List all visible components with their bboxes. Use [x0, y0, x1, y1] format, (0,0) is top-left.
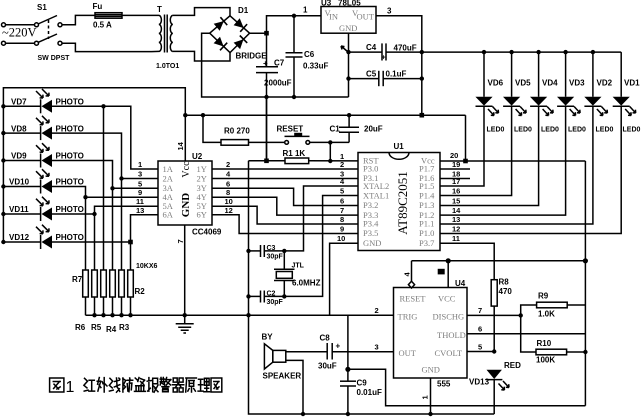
- node U4 GND rail: [428, 412, 432, 416]
- svg-text:VD2: VD2: [597, 79, 613, 88]
- svg-text:555: 555: [437, 380, 451, 389]
- photodiode VD12: [1, 225, 84, 249]
- node rail2/+5V column (square): [420, 113, 425, 118]
- svg-text:13: 13: [136, 206, 144, 215]
- wire speaker bottom: [286, 360, 303, 414]
- svg-text:+: +: [336, 342, 341, 351]
- node 3A/R4 riser: [110, 186, 114, 190]
- node RST row: [328, 159, 332, 163]
- wire from switch to fuse: [62, 15, 95, 24]
- svg-text:C8: C8: [320, 334, 331, 343]
- svg-text:7: 7: [478, 306, 482, 315]
- svg-text:PHOTO: PHOTO: [56, 124, 84, 133]
- svg-text:C9: C9: [357, 379, 368, 388]
- node 2A/R3 riser: [119, 176, 123, 180]
- svg-text:0.5 A: 0.5 A: [93, 21, 112, 30]
- svg-text:VD8: VD8: [11, 124, 27, 133]
- svg-text:30pF: 30pF: [267, 254, 284, 261]
- svg-text:AT89C2051: AT89C2051: [395, 171, 410, 235]
- wire fuse to transformer: [122, 14, 152, 16]
- svg-text:BY: BY: [262, 333, 274, 342]
- node button/RST drop: [328, 140, 332, 144]
- svg-text:P1.1: P1.1: [419, 219, 434, 229]
- capacitor C9 0.01uF: [340, 369, 382, 414]
- svg-text:R0 270: R0 270: [224, 127, 250, 136]
- svg-text:R6: R6: [75, 323, 86, 332]
- LED VD6: [475, 52, 504, 133]
- svg-text:12: 12: [225, 206, 233, 215]
- node C9 top: [345, 367, 350, 372]
- node CVOLT/VD13: [492, 349, 496, 353]
- svg-text:20uF: 20uF: [364, 125, 383, 134]
- svg-text:U4: U4: [455, 279, 466, 288]
- wire drop to RST row: [329, 142, 331, 161]
- +5 column right side: [584, 161, 586, 406]
- svg-text:TRIG: TRIG: [398, 312, 418, 322]
- resistor R9 1.0K: [521, 292, 586, 319]
- photodiode VD7: [1, 89, 84, 113]
- timer U4 555: [394, 279, 468, 389]
- svg-text:PHOTO: PHOTO: [56, 205, 84, 214]
- svg-text:1: 1: [421, 395, 430, 399]
- svg-text:2: 2: [226, 160, 230, 169]
- svg-text:P1.3: P1.3: [419, 200, 434, 210]
- caption: 图1 红外线防盗报警器原理图 (vector pseudo-glyphs): [50, 378, 64, 392]
- svg-text:1A: 1A: [163, 164, 174, 174]
- svg-text:C6: C6: [304, 50, 315, 59]
- wire U3 Vout to +5 column: [376, 16, 422, 115]
- svg-text:VD10: VD10: [9, 178, 30, 187]
- wire 5Y to U1 P3.4: [212, 206, 358, 224]
- wire U2 pin7 GND: [184, 225, 186, 315]
- wire VD12 row to U2 6A: [52, 215, 158, 242]
- svg-text:LED0: LED0: [623, 127, 641, 134]
- svg-text:C2: C2: [267, 291, 276, 298]
- svg-text:R9: R9: [538, 292, 549, 301]
- svg-text:3: 3: [138, 170, 142, 179]
- svg-text:GND: GND: [363, 238, 381, 248]
- svg-text:~220V: ~220V: [2, 26, 37, 40]
- svg-text:2A: 2A: [163, 173, 174, 183]
- svg-text:8: 8: [340, 215, 344, 224]
- svg-text:8: 8: [226, 188, 230, 197]
- svg-text:C3: C3: [267, 245, 276, 252]
- wire anode rail to rail2 junction is above; left anode column: [2, 106, 4, 242]
- GND vertical column (crystal common): [248, 161, 250, 315]
- svg-text:2000uF: 2000uF: [264, 79, 292, 88]
- node VD7/R5 riser: [101, 104, 105, 108]
- svg-text:LED0: LED0: [487, 127, 505, 134]
- svg-text:RED: RED: [504, 361, 521, 370]
- svg-text:LED0: LED0: [568, 127, 586, 134]
- resistor R2: [128, 270, 134, 297]
- svg-text:Fu: Fu: [93, 2, 103, 11]
- svg-text:R7: R7: [72, 275, 83, 284]
- capacitor C7 2000uF: [256, 33, 292, 161]
- pushbutton RESET: [277, 125, 310, 145]
- junction arrow mark at C4 row: [341, 46, 348, 52]
- wire bridge minus to ground rail: [202, 33, 349, 97]
- LED VD5: [503, 52, 532, 133]
- svg-text:6: 6: [226, 179, 230, 188]
- svg-text:6Y: 6Y: [197, 210, 207, 220]
- svg-text:R4: R4: [106, 325, 117, 334]
- svg-text:470: 470: [499, 287, 513, 296]
- resistor R10 100K: [521, 315, 586, 364]
- wire 1Y to U1 P3.0: [212, 168, 358, 170]
- svg-text:470uF: 470uF: [394, 44, 417, 53]
- svg-text:DISCHG: DISCHG: [433, 312, 465, 322]
- wire speaker top to C8: [286, 351, 327, 353]
- wire VD9 row to U2 3A: [52, 161, 158, 189]
- resistor R8 470: [491, 280, 497, 306]
- photodiode VD9: [1, 143, 84, 167]
- wire R0 to reset button: [249, 141, 285, 143]
- wire secondary top to bridge: [173, 8, 230, 16]
- svg-text:2Y: 2Y: [197, 173, 207, 183]
- photodiode VD10: [1, 169, 84, 193]
- node C6/rail1: [292, 95, 296, 99]
- node VD11/R6 riser: [92, 212, 96, 216]
- svg-text:VD3: VD3: [569, 79, 585, 88]
- svg-text:15: 15: [452, 197, 460, 206]
- square mark near VCC: [438, 269, 445, 275]
- svg-text:C1: C1: [330, 125, 341, 134]
- capacitor C4 470uF: [346, 43, 424, 62]
- node rail2/U2 Vcc: [183, 113, 187, 117]
- speaker BY: [262, 333, 302, 381]
- wire 6Y to U1 P3.5: [212, 215, 358, 234]
- wire U4 GND pin1: [430, 378, 432, 414]
- svg-text:6A: 6A: [163, 210, 174, 220]
- svg-text:RESET: RESET: [400, 294, 427, 304]
- svg-text:SW DPST: SW DPST: [38, 55, 71, 62]
- svg-text:10KX6: 10KX6: [136, 263, 158, 270]
- junction dots on ground rail: [92, 313, 96, 317]
- svg-text:1.0TO1: 1.0TO1: [156, 63, 179, 70]
- wire riser R6 column: [94, 214, 96, 270]
- wire rail2 to R0: [203, 115, 221, 142]
- svg-text:CC4069: CC4069: [192, 228, 222, 237]
- svg-text:PHOTO: PHOTO: [56, 152, 84, 161]
- wire VD13 cathode to THOLD net: [494, 405, 585, 407]
- svg-text:0.33uF: 0.33uF: [303, 62, 328, 71]
- wire C8 to OUT pin3: [332, 351, 393, 353]
- transformer T: [152, 5, 180, 70]
- wire P1.4 to VD5: [440, 106, 512, 195]
- svg-text:3: 3: [375, 343, 379, 352]
- node rail2/R0: [201, 113, 205, 117]
- wire R1 to RST: [309, 160, 358, 162]
- svg-text:5: 5: [138, 179, 142, 188]
- svg-text:16: 16: [452, 187, 460, 196]
- svg-text:5: 5: [478, 343, 482, 352]
- svg-text:P1.4: P1.4: [419, 190, 435, 200]
- resistor bottom leads: [86, 297, 131, 315]
- node bridge plus: [250, 16, 321, 33]
- GND drop from rail1 to R1 row: [266, 97, 268, 161]
- resistor R1 1K: [285, 158, 309, 164]
- LED VD1: [613, 79, 641, 134]
- wire VD8 row to U2 2A: [52, 133, 158, 178]
- svg-text:GND: GND: [339, 23, 357, 33]
- inverter U2 CC4069: [158, 152, 222, 237]
- microcontroller U1 AT89C2051: [358, 142, 440, 251]
- svg-text:R10: R10: [537, 339, 552, 348]
- svg-text:14: 14: [176, 141, 185, 150]
- svg-text:Vcc: Vcc: [181, 161, 192, 178]
- svg-text:R1 1K: R1 1K: [283, 149, 306, 158]
- wire VD11 row to U2 5A: [52, 206, 158, 214]
- wire U4 VCC pin: [447, 261, 449, 288]
- node speaker/bottom rail: [301, 412, 305, 416]
- svg-text:+: +: [263, 59, 268, 68]
- svg-text:IN: IN: [329, 12, 338, 22]
- svg-text:R3: R3: [119, 323, 130, 332]
- svg-text:VD4: VD4: [542, 79, 558, 88]
- svg-text:VD9: VD9: [11, 152, 27, 161]
- svg-text:100K: 100K: [536, 356, 555, 365]
- resistor R3: [119, 270, 125, 297]
- svg-text:P3.0: P3.0: [363, 164, 378, 174]
- wire rail2 end down to U1 pin20: [465, 115, 467, 161]
- wire riser R7 column: [85, 197, 87, 270]
- svg-text:LED0: LED0: [541, 127, 559, 134]
- svg-text:7: 7: [340, 206, 344, 215]
- svg-text:1: 1: [66, 379, 75, 396]
- wire CVOLT pin5: [467, 351, 494, 353]
- svg-text:6.0MHZ: 6.0MHZ: [292, 279, 321, 288]
- svg-text:GND: GND: [180, 193, 192, 218]
- ground symbol: [176, 315, 194, 333]
- wire XTAL1 to crystal bottom: [284, 196, 358, 297]
- wire GND net to R1: [249, 160, 286, 162]
- LED VD13 RED: [469, 361, 521, 414]
- stub P1.6: [440, 178, 470, 180]
- svg-text:D1: D1: [238, 6, 249, 15]
- svg-text:S1: S1: [37, 3, 47, 12]
- svg-text:OUT: OUT: [399, 348, 417, 358]
- svg-text:VD1: VD1: [624, 79, 640, 88]
- +5V rail2: [185, 114, 465, 116]
- svg-text:RESET: RESET: [277, 125, 304, 134]
- capacitor C2 30pF: [246, 291, 284, 307]
- photodiode anode rail: [3, 88, 185, 116]
- node R10 right: [583, 350, 587, 354]
- svg-text:VD11: VD11: [9, 205, 29, 214]
- wire riser R4 column: [112, 188, 114, 270]
- svg-text:CVOLT: CVOLT: [435, 348, 463, 358]
- svg-text:0.1uF: 0.1uF: [386, 70, 407, 79]
- wire P1.5 to VD6: [440, 106, 484, 186]
- svg-text:6: 6: [478, 325, 482, 334]
- LED VD2: [584, 52, 613, 133]
- svg-text:VD6: VD6: [488, 79, 504, 88]
- wire riser R3 column: [121, 179, 123, 271]
- svg-text:PHOTO: PHOTO: [56, 98, 84, 107]
- wire U1 GND pin to ground rail: [330, 243, 358, 315]
- LED VD3: [557, 52, 586, 133]
- svg-text:C7: C7: [274, 59, 285, 68]
- svg-text:T: T: [157, 5, 162, 14]
- wire U3 GND down: [348, 33, 350, 97]
- node pin20 (square): [463, 159, 468, 164]
- resistor R0 270: [221, 140, 249, 146]
- wire VD1 column top: [620, 52, 622, 97]
- svg-text:P3.5: P3.5: [363, 228, 378, 238]
- wire GND column to bottom rail: [249, 315, 495, 414]
- svg-text:1: 1: [303, 6, 308, 15]
- svg-text:20: 20: [450, 151, 458, 160]
- capacitor C6 0.33uF: [286, 16, 329, 97]
- bridge rectifier D1: [210, 6, 268, 61]
- svg-text:30pF: 30pF: [267, 299, 284, 306]
- svg-text:OUT: OUT: [357, 12, 375, 22]
- wire secondary bottom to bridge: [173, 51, 230, 61]
- wire P1.3 to VD4: [440, 106, 539, 205]
- svg-text:30uF: 30uF: [318, 362, 337, 371]
- svg-text:SPEAKER: SPEAKER: [263, 372, 302, 381]
- svg-text:11: 11: [452, 234, 460, 243]
- wire P1.2 to VD3: [440, 106, 566, 215]
- svg-text:C5: C5: [366, 70, 377, 79]
- svg-text:THOLD: THOLD: [437, 330, 466, 340]
- LED supply rail: [422, 51, 621, 53]
- wire button to C1 bottom: [310, 141, 349, 143]
- wire 2Y to U1 P3.1: [212, 178, 358, 180]
- wire P1.0 to VD1: [440, 106, 621, 233]
- svg-text:LED0: LED0: [596, 127, 614, 134]
- svg-text:JTL: JTL: [292, 263, 305, 270]
- wire THOLD pin6: [467, 333, 585, 335]
- ground rail: [86, 314, 394, 316]
- wire TRIG branch down to C9 node: [347, 315, 349, 369]
- svg-text:U1: U1: [394, 142, 405, 151]
- wire U2 pin14: [184, 115, 186, 161]
- svg-text:P3.4: P3.4: [363, 219, 379, 229]
- capacitor C8 30uF: [318, 334, 341, 371]
- node LED rail dots: [482, 50, 486, 54]
- node 4A/R7 riser: [83, 195, 87, 199]
- svg-text:LED0: LED0: [514, 127, 532, 134]
- svg-text:R2: R2: [135, 287, 146, 296]
- node C6 top: [292, 14, 296, 18]
- wire riser R2 column: [130, 242, 132, 270]
- node R1 row (square): [264, 159, 269, 164]
- wire lower AC: [62, 43, 152, 51]
- svg-text:P3.7: P3.7: [419, 238, 434, 248]
- node C7/rail1: [264, 95, 268, 99]
- svg-text:9: 9: [138, 188, 142, 197]
- wire P1.1 to VD2: [440, 106, 593, 224]
- svg-text:XTAL1: XTAL1: [363, 190, 389, 200]
- 555 supply line: [412, 260, 586, 262]
- svg-text:12: 12: [452, 225, 460, 234]
- svg-text:14: 14: [452, 206, 461, 215]
- wire riser R5 column: [103, 106, 105, 270]
- svg-text:P1.0: P1.0: [419, 228, 434, 238]
- wire XTAL2 to crystal top: [284, 186, 358, 251]
- crystal JTL 6.0MHZ: [274, 251, 321, 297]
- svg-text:13: 13: [452, 215, 460, 224]
- svg-text:2: 2: [375, 306, 379, 315]
- regulator U3 78L05: [303, 0, 392, 33]
- svg-text:VD12: VD12: [9, 233, 30, 242]
- wire VD7 row to U2 1A: [52, 106, 158, 169]
- svg-text:PHOTO: PHOTO: [56, 178, 84, 187]
- svg-text:PHOTO: PHOTO: [56, 233, 84, 242]
- svg-text:GND: GND: [422, 365, 440, 375]
- svg-text:3: 3: [387, 7, 392, 16]
- node crystal top: [282, 249, 286, 253]
- wire P3.7 to R8: [440, 243, 494, 280]
- svg-text:VCC: VCC: [438, 294, 456, 304]
- wire DISCHG pin7: [467, 314, 521, 316]
- wire C9 node to VD13 rail: [348, 369, 494, 405]
- svg-text:2: 2: [340, 160, 344, 169]
- wire R8 bottom through DISCHG row to CVOLT node: [493, 306, 495, 351]
- wire 4Y to U1 P3.3: [212, 197, 358, 215]
- resistor R6: [92, 270, 98, 297]
- node DISCHG/R9/R10: [519, 313, 523, 317]
- capacitor C5 0.1uF: [346, 70, 424, 87]
- wire VD10 row to U2 4A: [52, 187, 158, 198]
- stub P1.7: [440, 168, 470, 170]
- svg-text:5: 5: [340, 187, 344, 196]
- capacitor C1 20uF: [330, 113, 383, 142]
- U4 RESET pin4 with diamond: [411, 261, 413, 281]
- svg-text:VD5: VD5: [515, 79, 531, 88]
- svg-text:0.01uF: 0.01uF: [357, 388, 382, 397]
- node C9 bottom rail: [346, 412, 350, 416]
- svg-text:R8: R8: [499, 278, 510, 287]
- capacitor C3 30pF: [246, 245, 284, 261]
- svg-text:1.0K: 1.0K: [538, 310, 555, 319]
- node crystal bottom: [282, 294, 286, 298]
- LED VD4: [530, 52, 559, 133]
- svg-text:1Y: 1Y: [197, 164, 207, 174]
- svg-text:7: 7: [176, 239, 185, 243]
- svg-text:P3.2: P3.2: [363, 200, 378, 210]
- svg-text:10: 10: [337, 234, 345, 243]
- svg-text:9: 9: [340, 225, 344, 234]
- node VD12/R2 riser: [128, 240, 133, 245]
- svg-text:U2: U2: [192, 152, 203, 161]
- svg-text:6: 6: [340, 197, 344, 206]
- node VCC drop: [446, 258, 451, 263]
- switch S1: [2, 3, 71, 62]
- wire 3Y to U1 P3.2: [212, 188, 358, 205]
- svg-text:1: 1: [138, 160, 142, 169]
- svg-text:VD7: VD7: [11, 98, 27, 107]
- svg-text:C4: C4: [366, 43, 377, 52]
- node 555 supply: [583, 258, 588, 263]
- svg-text:R5: R5: [91, 323, 102, 332]
- photodiode VD8: [1, 116, 84, 140]
- fuse Fu 0.5A: [93, 2, 123, 30]
- resistor R7: [83, 270, 89, 297]
- photodiode VD11: [1, 197, 84, 221]
- resistor R4: [110, 270, 116, 297]
- wire U1 Vcc pin20: [440, 160, 585, 162]
- svg-text:+: +: [382, 55, 386, 62]
- svg-text:P1.7: P1.7: [419, 164, 434, 174]
- resistor R5: [101, 270, 107, 297]
